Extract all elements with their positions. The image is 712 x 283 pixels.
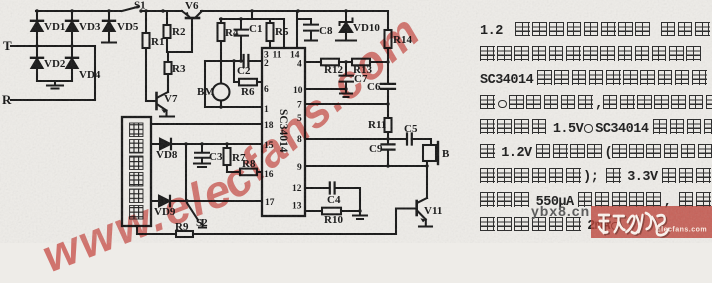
capacitor C9: [382, 144, 395, 149]
ground below C3: [194, 164, 210, 168]
wire V7 emitter bar: [160, 115, 174, 117]
resistor R11: [385, 118, 392, 132]
wire pin9 line: [305, 165, 427, 167]
IC U1 SC34014: [262, 48, 305, 216]
transistor V11: [418, 198, 427, 203]
wire VD5 branch: [108, 11, 110, 42]
node junctions BM area: [219, 17, 242, 108]
node junctions right column: [344, 60, 428, 212]
wire R2 bottom to V6 base: [167, 20, 192, 52]
wire pin12 line: [305, 188, 360, 211]
wire pin17 line with VD9: [151, 200, 262, 202]
diode VD1: [31, 20, 43, 22]
wire pin7 line: [305, 103, 388, 105]
ground below C7: [340, 94, 352, 98]
wire BM bottom to pin1 line: [220, 101, 222, 108]
wire R6 to pin6: [257, 81, 262, 83]
wire VD3 branch: [71, 11, 73, 81]
wire top supply rail: [36, 10, 388, 12]
node VD3 mid junction: [70, 44, 73, 47]
wire B bottom to V11 collector: [426, 161, 428, 198]
wire C5 to B: [412, 139, 431, 145]
transistor V6: [186, 17, 199, 20]
wire VD2-VD4 bottom join: [37, 81, 72, 85]
logo script characters: [599, 213, 668, 235]
node junctions pin15/pin17 lines: [184, 142, 228, 202]
wire T-R link vertical: [94, 46, 96, 100]
wire VD5 termination bar: [102, 41, 116, 43]
diode VD2: [31, 57, 43, 59]
resistor R5: [269, 19, 271, 48]
wire pin15 line with VD8: [151, 143, 262, 145]
wire bottom rail: [137, 233, 396, 235]
capacitor C6: [381, 84, 395, 89]
wire T line: [11, 45, 95, 47]
wire pin10 line: [305, 88, 346, 90]
switch S2: [187, 203, 206, 228]
switch S1: [122, 7, 139, 12]
node S1 right junction: [139, 9, 142, 12]
resistor R9: [176, 231, 193, 237]
wire VD1 branch: [36, 11, 38, 81]
wire R4/C1 top distribution: [220, 11, 284, 19]
node rail junctions: [35, 9, 347, 12]
wire C2 node line: [205, 60, 243, 62]
resistor R10: [322, 208, 341, 215]
wire C2 node vertical: [204, 61, 206, 107]
node T junction: [35, 44, 38, 47]
wire pin13 line: [305, 210, 360, 212]
box text 拨号集成电路: [130, 123, 144, 219]
dialer IC box 拨号集成电路: [122, 117, 151, 226]
diode VD9: [159, 196, 170, 206]
wire R line: [11, 99, 95, 101]
resistor R2: [166, 11, 168, 52]
capacitor C3: [195, 144, 209, 163]
wire C2 to pin2: [248, 60, 262, 62]
wire V11 emitter bar: [419, 225, 432, 227]
resistor R1: [145, 11, 147, 101]
resistor R7: [226, 144, 228, 172]
diode VD3: [66, 20, 78, 22]
ybx8.cn watermark: [531, 203, 590, 219]
capacitor C8: [304, 19, 318, 40]
receiver B: [423, 145, 436, 161]
watermark www.elecfans.com: [35, 71, 474, 283]
wire pin1 line: [205, 106, 262, 108]
logo script characters shadow: [600, 214, 669, 236]
wire pin18 line: [151, 123, 262, 125]
ground after R10: [353, 211, 367, 219]
capacitor C4: [330, 183, 335, 194]
wire C8 termination bar: [305, 39, 317, 41]
transistor V7: [146, 100, 156, 102]
resistor R14: [385, 30, 392, 48]
wire pin8 line to C5: [305, 138, 407, 140]
resistor R13: [352, 59, 370, 66]
capacitor C1: [235, 19, 249, 61]
capacitor C7: [340, 62, 354, 93]
wire pin16 line: [227, 171, 262, 173]
resistor R4: [220, 19, 222, 84]
capacitor C2: [244, 55, 249, 67]
capacitor C5: [407, 134, 412, 145]
resistor R12: [321, 59, 339, 66]
wire C2 node to R6: [234, 61, 239, 82]
microphone BM: [213, 84, 230, 101]
wire pin14 drop and C8 feed: [297, 11, 311, 48]
wire VD10 termination bar: [336, 39, 356, 41]
resistor R3: [167, 52, 169, 92]
wire pin11 drop: [283, 19, 285, 48]
wire right supply column: [387, 11, 389, 166]
zener diode VD10: [340, 11, 353, 25]
diode VD5: [103, 20, 115, 22]
resistor R8: [240, 169, 257, 176]
wire pin4 line: [305, 61, 388, 63]
logo 电子发烧友 red block: [591, 206, 712, 238]
resistor R6: [239, 79, 257, 86]
wire junction drop to pin17 line: [185, 144, 187, 201]
diode VD8: [160, 139, 171, 149]
diode VD4: [66, 57, 78, 59]
wire V11 base return: [396, 209, 416, 235]
ground below bridge: [47, 86, 63, 89]
wire box bottom to ground rail: [136, 226, 138, 234]
